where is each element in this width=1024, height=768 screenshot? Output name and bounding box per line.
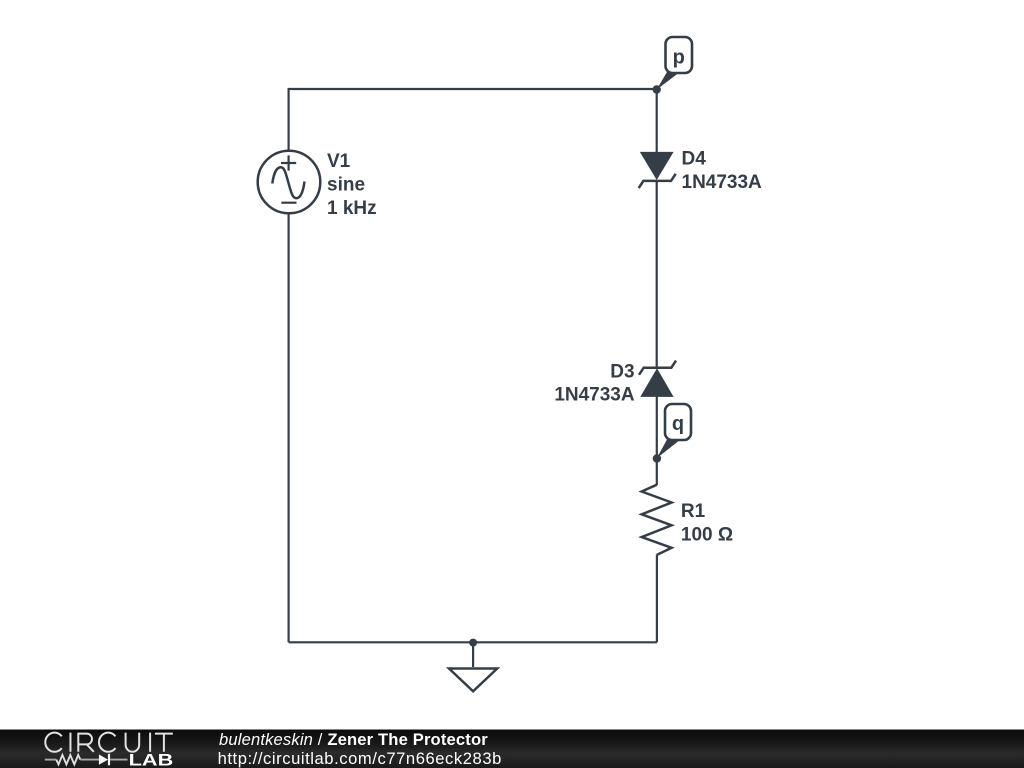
- CircuitLab logo "CIRCUIT" wordmark: [45, 733, 173, 752]
- svg-text:1 kHz: 1 kHz: [327, 198, 377, 219]
- svg-text:R1: R1: [681, 501, 706, 522]
- wire: D4 cathode to D3 cathode: [656, 181, 658, 368]
- CircuitLab logo resistor-diode glyph: [45, 754, 128, 766]
- node p flag: [657, 37, 692, 90]
- svg-text:D3: D3: [610, 361, 634, 382]
- wire bottom rail: [289, 641, 657, 643]
- svg-text:V1: V1: [327, 151, 351, 172]
- node q flag: [657, 404, 691, 458]
- voltage source V1: [258, 151, 321, 214]
- resistor R1: [642, 485, 672, 555]
- svg-text:p: p: [673, 47, 685, 69]
- ground junction dot: [469, 639, 477, 647]
- svg-text:sine: sine: [327, 174, 365, 195]
- label R1 100 Ω: [681, 501, 733, 545]
- footer bar: [0, 730, 1024, 768]
- footer title: [218, 730, 502, 768]
- ground: [449, 643, 497, 692]
- svg-text:1N4733A: 1N4733A: [682, 172, 763, 193]
- node p junction dot: [653, 85, 661, 93]
- zener diode D4: [639, 152, 676, 188]
- wire: D3 anode through node q to R1: [656, 397, 658, 486]
- wire: node p down to D4 anode: [656, 89, 658, 153]
- wire top: V1 top to node p: [289, 89, 657, 151]
- CircuitLab logo "LAB": [129, 751, 174, 768]
- svg-text:bulentkeskin / Zener The Prote: bulentkeskin / Zener The Protector: [219, 730, 488, 749]
- label V1 sine 1 kHz: [327, 151, 377, 219]
- label D3 1N4733A: [554, 361, 635, 405]
- svg-text:1N4733A: 1N4733A: [554, 385, 635, 406]
- zener diode D3: [639, 361, 676, 397]
- label D4 1N4733A: [682, 148, 763, 192]
- svg-text:D4: D4: [682, 148, 707, 169]
- node q junction dot: [653, 454, 661, 462]
- svg-text:http://circuitlab.com/c77n66ec: http://circuitlab.com/c77n66eck283b: [218, 749, 502, 768]
- wire left: V1 bottom down: [288, 213, 290, 642]
- svg-text:LAB: LAB: [129, 751, 174, 768]
- wire: R1 bottom to bottom rail: [656, 555, 658, 643]
- svg-text:q: q: [672, 413, 684, 435]
- svg-text:100 Ω: 100 Ω: [681, 524, 733, 545]
